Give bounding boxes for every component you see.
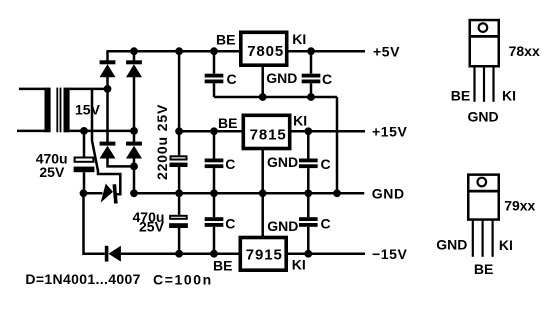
diode D4 bridge lower-right xyxy=(126,142,142,159)
node 7805 output cap ground xyxy=(307,93,315,101)
wire GND rail xyxy=(134,192,364,195)
svg-text:GND: GND xyxy=(267,218,298,234)
svg-text:KI: KI xyxy=(502,88,516,104)
node 7815 input cap ground xyxy=(210,189,218,197)
transistor 79xx package outline xyxy=(467,175,499,220)
label +15V output xyxy=(372,123,408,139)
wire node A down to negative line xyxy=(84,193,105,253)
wire 7805 GND pin xyxy=(261,66,264,97)
svg-text:GND: GND xyxy=(372,185,405,201)
wire bridge bottom connector xyxy=(108,158,135,193)
wire negative line to 7915 BE xyxy=(121,252,241,255)
svg-text:BE: BE xyxy=(451,88,470,104)
svg-text:BE: BE xyxy=(216,31,235,47)
label -15V output xyxy=(372,246,408,262)
svg-text:7815: 7815 xyxy=(250,127,287,144)
svg-text:15V: 15V xyxy=(75,101,101,117)
transformer T1 secondary winding xyxy=(64,88,135,133)
wire -15V output xyxy=(287,252,366,255)
svg-text:+15V: +15V xyxy=(372,123,408,139)
node AC top lead junction xyxy=(104,85,112,93)
svg-text:C: C xyxy=(225,156,235,172)
svg-text:78xx: 78xx xyxy=(509,43,540,59)
capacitor C 100n 7915 output xyxy=(299,193,318,253)
label D diode type note xyxy=(25,271,140,287)
label BE 7805 input pin xyxy=(216,31,235,47)
node +15V output cap junction xyxy=(304,127,312,135)
label 2200u 25V rotated xyxy=(154,104,170,180)
capacitor 2200u 25V smoothing xyxy=(170,51,188,193)
label C capacitor value note xyxy=(153,271,213,287)
svg-text:2200u 25V: 2200u 25V xyxy=(154,104,170,180)
node 7815 ground at GND rail xyxy=(259,189,267,197)
wire left bridge leg upper xyxy=(106,50,109,89)
svg-text:+5V: +5V xyxy=(373,44,400,60)
capacitor C 100n 7815 output xyxy=(299,131,318,193)
wire 7915 GND pin xyxy=(261,193,264,238)
wire +15V output xyxy=(290,130,365,133)
wire 7805 ground link xyxy=(214,96,337,99)
svg-text:C: C xyxy=(321,215,331,231)
svg-text:7915: 7915 xyxy=(246,247,283,264)
node bridge output to GND rail xyxy=(130,163,138,198)
label BE 7815 input pin xyxy=(218,115,237,131)
capacitor C 100n 7805 output xyxy=(302,51,321,97)
svg-text:25V: 25V xyxy=(39,164,65,180)
svg-text:C: C xyxy=(225,215,235,231)
capacitor C 100n 7815 input xyxy=(205,131,224,193)
node A negative charge pump xyxy=(80,189,88,197)
node 7805 ground at GND rail xyxy=(333,189,341,197)
label GND 79xx pin xyxy=(436,237,467,253)
svg-text:C: C xyxy=(322,71,332,87)
capacitor C 100n 7805 input xyxy=(205,51,224,97)
svg-text:BE: BE xyxy=(213,258,232,274)
diode D5 clamp tilted xyxy=(101,184,116,204)
node -15V output cap junction xyxy=(304,250,312,258)
label GND 78xx pin xyxy=(468,108,499,124)
label +5V output xyxy=(373,44,400,60)
wire riser from AC top lead to clamp diode xyxy=(92,89,120,194)
label BE 7915 input pin xyxy=(213,258,232,274)
label GND 7815 pin xyxy=(267,154,298,170)
node top rail D2 cathode xyxy=(130,47,138,55)
label KI 7815 output pin xyxy=(293,113,307,129)
pin legs 79xx package xyxy=(473,220,493,257)
label GND 7915 pin xyxy=(267,218,298,234)
node 2200u tap 7815 input xyxy=(175,127,183,135)
node 470u negative line xyxy=(175,250,183,258)
label KI 79xx pin xyxy=(499,237,513,253)
node 7805 input cap top rail xyxy=(210,47,218,55)
transformer T1 primary winding xyxy=(17,88,51,133)
svg-text:KI: KI xyxy=(293,113,307,129)
wire top positive rail xyxy=(108,50,240,53)
label C 7805 input cap xyxy=(227,71,237,87)
label GND output xyxy=(372,185,405,201)
diode D3 bridge lower-left xyxy=(100,142,116,159)
svg-text:KI: KI xyxy=(292,256,306,272)
svg-text:25V: 25V xyxy=(139,219,165,235)
svg-text:−15V: −15V xyxy=(372,246,408,262)
label 15V secondary voltage xyxy=(75,101,101,117)
node 2200u top rail xyxy=(175,47,183,55)
svg-text:GND: GND xyxy=(266,70,297,86)
op-amp U3 regulator 7915 box xyxy=(240,238,286,271)
svg-text:7805: 7805 xyxy=(247,43,284,60)
diode D2 bridge upper-right xyxy=(126,60,142,77)
node +5V output cap junction xyxy=(307,47,315,55)
svg-text:GND: GND xyxy=(468,108,499,124)
pin legs 78xx package xyxy=(475,67,494,102)
node AC bottom lead junction xyxy=(130,127,138,135)
label 78xx xyxy=(509,43,540,59)
capacitor 470u 25V negative smoothing xyxy=(169,193,188,253)
svg-text:KI: KI xyxy=(499,237,513,253)
label C 7815 input cap xyxy=(225,156,235,172)
wire left bridge leg lower xyxy=(106,89,109,142)
label C 7815 output cap xyxy=(321,156,331,172)
label 79xx xyxy=(504,197,535,213)
svg-text:GND: GND xyxy=(436,237,467,253)
wire 7815 GND pin xyxy=(261,149,264,193)
label 470u 25V right xyxy=(133,209,165,235)
wire 7815 input line xyxy=(179,130,243,133)
wire 7805 ground down to GND rail xyxy=(336,97,339,193)
transistor 78xx package outline xyxy=(469,20,501,66)
transformer T1 core xyxy=(56,88,61,133)
label BE 79xx pin xyxy=(474,261,493,277)
op-amp U1 regulator 7805 box xyxy=(241,32,287,65)
svg-text:C: C xyxy=(227,71,237,87)
capacitor C 100n 7915 input xyxy=(205,193,224,253)
svg-text:BE: BE xyxy=(218,115,237,131)
svg-text:C: C xyxy=(321,156,331,172)
capacitor 470u 25V coupling xyxy=(74,131,95,193)
op-amp U2 regulator 7815 box xyxy=(243,115,289,148)
label 470u 25V left xyxy=(36,151,68,181)
node 7815 output cap ground xyxy=(304,189,312,197)
wire node A to clamp diode anode xyxy=(84,192,103,195)
diode D1 bridge upper-left xyxy=(100,60,116,77)
node 470u tap on AC bottom lead xyxy=(80,127,88,135)
svg-text:C=100n: C=100n xyxy=(153,271,213,287)
svg-text:GND: GND xyxy=(267,154,298,170)
svg-text:KI: KI xyxy=(292,31,306,47)
svg-text:D=1N4001...4007: D=1N4001...4007 xyxy=(25,271,140,287)
svg-text:79xx: 79xx xyxy=(504,197,535,213)
node 2200u bottom GND rail xyxy=(175,189,183,197)
node 7805 GND pin junction xyxy=(259,93,267,101)
diode D6 negative rail series xyxy=(105,246,121,262)
label GND 7805 pin xyxy=(266,70,297,86)
svg-text:BE: BE xyxy=(474,261,493,277)
label KI 7805 output pin xyxy=(292,31,306,47)
label C 7805 output cap xyxy=(322,71,332,87)
node 7815 input cap tap xyxy=(210,127,218,135)
label BE 78xx pin xyxy=(451,88,470,104)
label C 7915 output cap xyxy=(321,215,331,231)
label KI 78xx pin xyxy=(502,88,516,104)
label C 7915 input cap xyxy=(225,215,235,231)
label KI 7915 output pin xyxy=(292,256,306,272)
wire right bridge leg upper xyxy=(133,50,136,142)
wire +5V output xyxy=(288,50,366,53)
node 7915 input cap negative line xyxy=(210,250,218,258)
